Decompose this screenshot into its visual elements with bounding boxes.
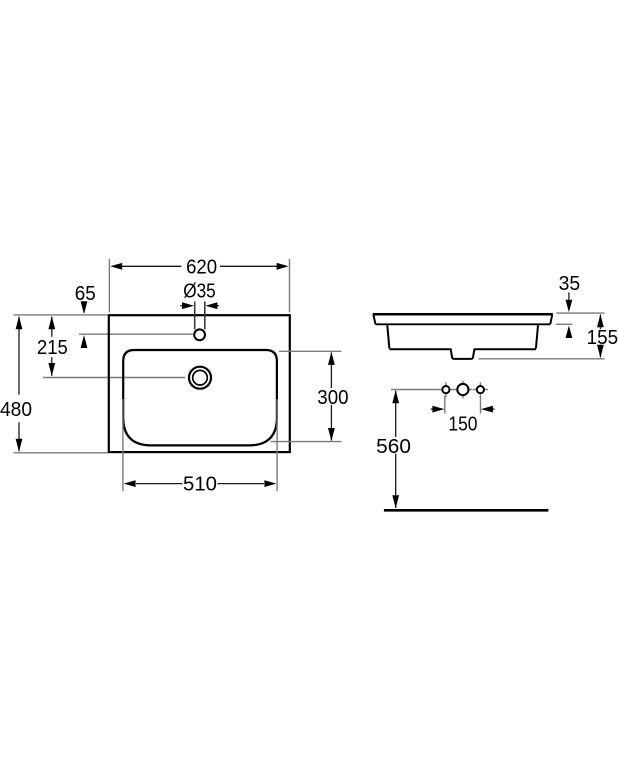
extension line from top-left corner [14, 314, 108, 316]
svg-text:510: 510 [183, 474, 217, 496]
bowl bottom and drain stub (side view) [389, 349, 536, 359]
arrow right (620) [277, 263, 289, 270]
dimension line 480 [18, 317, 20, 452]
crosshair ticks centre faucet hole [454, 381, 473, 399]
svg-text:Ø35: Ø35 [183, 281, 215, 303]
arrow up (560) [392, 390, 399, 403]
crosshair ticks left fixing hole [438, 382, 453, 397]
extension line left (620) [108, 259, 110, 312]
extension line right (510) [276, 399, 278, 491]
extension line left (Ø35) [194, 302, 196, 330]
washbasin outer edge (top view) [109, 315, 290, 452]
arrow down (300) [328, 428, 335, 441]
dimension line 560 [395, 391, 397, 508]
extension line right (150) [480, 396, 482, 414]
leader line to faucet hole centre [79, 333, 193, 335]
leader line to drain centre [43, 377, 185, 379]
svg-text:215: 215 [37, 337, 68, 359]
svg-text:480: 480 [0, 399, 32, 421]
dimension line 215 [51, 317, 53, 376]
arrow down (480) [16, 439, 23, 452]
arrow down (215) [48, 363, 55, 376]
arrow left (620) [110, 263, 122, 270]
arrow pointing left (Ø35) [216, 305, 219, 307]
extension line top (300) [279, 350, 341, 352]
basin bowl outline (top view) [123, 350, 277, 445]
arrow up (35) [566, 326, 573, 339]
arrow down to top edge (65) [81, 301, 88, 314]
svg-text:35: 35 [559, 273, 581, 295]
faucet hole centre (side detail) [457, 384, 468, 395]
arrow pointing left (150) [492, 408, 495, 410]
svg-text:155: 155 [587, 327, 618, 349]
extension line from bottom-left corner [14, 452, 108, 454]
drain outer circle [189, 367, 211, 389]
extension line right (620) [289, 259, 291, 312]
svg-text:150: 150 [448, 414, 477, 436]
arrow pointing right (Ø35) [180, 305, 183, 307]
extension line left (510) [122, 399, 124, 491]
arrow down (35) [568, 293, 570, 302]
rim left end bevel (side view) [373, 315, 375, 325]
rim top edge (side view) [373, 313, 553, 316]
faucet hole Ø35 (top view) [194, 329, 205, 340]
arrow up (480) [16, 316, 23, 329]
arrow up to faucet-hole line (65) [81, 335, 88, 348]
extension line rim bottom (35) [556, 323, 573, 325]
dimension line 510 [136, 483, 264, 485]
dimension line 155 [599, 315, 601, 358]
arrow up (215) [48, 316, 55, 329]
floor line [384, 509, 549, 512]
dimension line 300 [330, 353, 332, 441]
bowl right side (side view) [536, 325, 538, 348]
svg-text:620: 620 [186, 256, 217, 278]
extension line right (Ø35) [204, 302, 206, 330]
arrow right (510) [264, 480, 276, 487]
extension line rim top (35/155) [556, 312, 604, 314]
extension line bottom (155) [479, 358, 605, 360]
extension line from 560 to fixing holes [391, 389, 440, 391]
arrow down (560) [392, 495, 399, 508]
extension line left (150) [444, 396, 446, 414]
bowl left side (side view) [387, 325, 389, 348]
arrow pointing right (150) [431, 408, 434, 410]
arrow left (510) [124, 480, 136, 487]
arrow down (155) [597, 345, 604, 358]
rim right end bevel (side view) [550, 315, 552, 325]
rim bottom edge (side view) [376, 323, 551, 325]
dimension line 620 [122, 265, 277, 267]
crosshair ticks right fixing hole [473, 382, 488, 397]
svg-text:560: 560 [376, 436, 411, 458]
svg-text:300: 300 [317, 387, 348, 409]
drain inner circle [193, 370, 208, 385]
arrow up (155) [597, 314, 604, 327]
fixing hole right (side detail) [477, 386, 484, 393]
arrow up (300) [328, 352, 335, 365]
fixing hole left (side detail) [442, 386, 449, 393]
extension line bottom (300) [271, 441, 342, 443]
